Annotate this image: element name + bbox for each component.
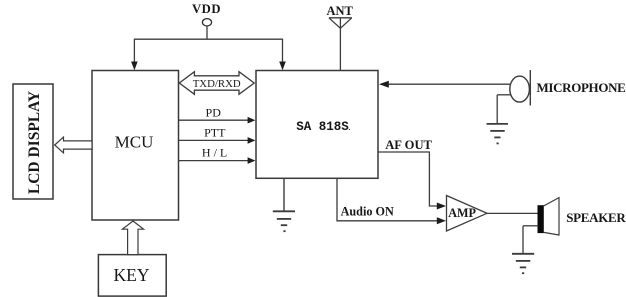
antenna symbol [329,18,352,29]
signal label PTT [204,125,226,139]
wire VDD drop to SA818S with arrowhead [279,39,286,71]
wire AF OUT from SA818S to AMP with arrowhead [378,152,446,210]
wire speaker ground tap [523,226,538,254]
wire H/L arrow MCU to SA818S [179,157,256,164]
wire PD arrow MCU to SA818S [179,117,256,124]
svg-text:AF OUT: AF OUT [385,138,432,152]
wire VDD bus horizontal [134,38,282,40]
label Audio ON [341,205,394,219]
block MCU [92,71,179,221]
svg-text:MICROPHONE: MICROPHONE [537,80,626,95]
antenna ANT label [326,4,353,18]
power VDD label [192,2,221,16]
svg-text:PD: PD [206,105,222,119]
bus arrow MCU to LCD (hollow left arrow) [55,137,92,153]
svg-text:VDD: VDD [192,2,221,16]
svg-text:KEY: KEY [114,265,150,285]
svg-text:TXD/RXD: TXD/RXD [193,78,241,90]
wire antenna to SA818S [339,18,341,71]
label SPEAKER [566,210,626,225]
ground below speaker [512,254,534,273]
op-amp AMP triangle [447,196,488,232]
svg-text:ANT: ANT [326,4,353,18]
block KEY [98,255,166,297]
wire VDD drop to MCU with arrowhead [131,39,138,71]
wire Audio ON from SA818S to AMP with arrowhead [337,178,446,224]
wire VDD stem [206,26,208,39]
svg-text:PTT: PTT [204,125,226,139]
ground below SA818S [273,178,295,231]
ground below microphone [487,124,509,143]
svg-text:H / L: H / L [202,146,227,160]
svg-text:AMP: AMP [448,206,476,220]
wire microphone ground tap [497,95,511,124]
bus arrow KEY to MCU (hollow up arrow) [122,221,143,255]
svg-text:LCD DISPLAY: LCD DISPLAY [26,91,43,194]
svg-text:MCU: MCU [115,133,154,152]
microphone symbol [510,70,531,105]
signal label PD [206,105,222,119]
block LCD DISPLAY [13,84,53,199]
signal label H/L [202,146,227,160]
label MICROPHONE [537,80,626,95]
wire AMP output to speaker [487,212,538,214]
block SA 818S [256,71,378,179]
bus arrow TXD/RXD (hollow double arrow) [179,72,254,95]
wire PTT arrow MCU to SA818S [179,137,256,144]
wire microphone to SA818S with arrowhead [379,81,510,88]
svg-text:Audio ON: Audio ON [341,205,394,219]
label AF OUT [385,138,432,152]
power VDD terminal circle [202,19,211,26]
svg-text:SA 818S.: SA 818S. [296,120,351,134]
speaker symbol [538,198,559,235]
svg-text:SPEAKER: SPEAKER [566,210,626,225]
